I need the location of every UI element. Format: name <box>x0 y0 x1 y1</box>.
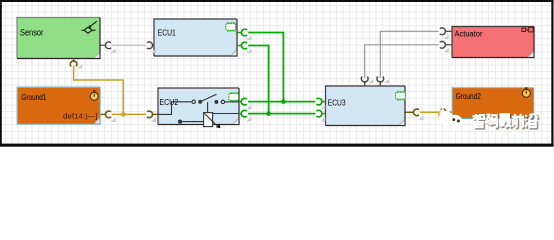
block Actuator <box>452 27 534 58</box>
svg-text:Ground2: Ground2 <box>456 91 481 101</box>
block Sensor <box>17 18 100 59</box>
svg-text:Sensor: Sensor <box>20 27 44 37</box>
Ground2 input port <box>441 109 446 116</box>
Actuator input port 1 <box>446 30 452 32</box>
wire Actuator port1 to ECU3 top2 <box>380 31 438 78</box>
svg-text:def14:|---]: def14:|---] <box>63 113 98 120</box>
junction net2 <box>266 111 271 116</box>
ECU1 input port <box>147 42 153 49</box>
Sensor output port <box>105 42 111 49</box>
Ground1 clock icon <box>90 90 98 100</box>
svg-text:Actuator: Actuator <box>455 30 483 39</box>
wire ECU1 port1 down to net1 <box>248 33 283 102</box>
wire Sensor bottom to power net <box>74 66 124 115</box>
actuator icon <box>522 27 533 32</box>
svg-text:ECU3: ECU3 <box>328 97 346 107</box>
junction power net <box>121 112 126 117</box>
block ECU3 <box>326 86 406 126</box>
wire Actuator port2 to ECU3 top1 <box>365 45 439 78</box>
wire ECU1 port2 down to net2 <box>248 46 268 114</box>
ECU3 output port <box>414 109 419 116</box>
block ECU1 <box>154 19 237 56</box>
Sensor bottom port <box>73 59 75 63</box>
Actuator input port 2 <box>446 44 452 46</box>
ECU1 output port 1 <box>237 32 242 34</box>
ECU2 input port <box>147 111 152 118</box>
ECU3 top port 2 <box>379 81 381 86</box>
watermark logo <box>438 108 463 130</box>
wire net1 ECU2 to ECU3 <box>248 101 316 103</box>
block ECU2 <box>158 88 239 125</box>
svg-text:ECU1: ECU1 <box>158 28 176 38</box>
Ground1 output port <box>106 111 111 118</box>
block Ground2 <box>452 88 534 119</box>
ECU2 internal relay circuit <box>158 94 239 128</box>
ECU2 output port 1 <box>239 101 241 103</box>
ECU3 chip icon <box>396 91 406 101</box>
wire ECU3 to Ground2 <box>420 111 440 113</box>
Ground2 clock icon <box>522 87 530 97</box>
ECU3 input port 2 <box>322 113 326 115</box>
wire net2 ECU2 to ECU3 <box>248 113 316 115</box>
sensor icon <box>82 21 97 33</box>
wire Sensor to ECU1 <box>112 44 146 46</box>
wire Ground1 to ECU2 <box>112 113 146 115</box>
junction net1 <box>281 99 286 104</box>
ECU3 top port 1 <box>364 81 366 86</box>
ECU1 output port 2 <box>237 45 242 47</box>
ECU1 chip icon <box>226 22 236 32</box>
ECU2 output port 2 <box>239 113 241 115</box>
watermark text 智驾最前沿 <box>474 115 539 128</box>
ECU3 input port 1 <box>322 101 326 103</box>
block Ground1 <box>17 87 100 124</box>
ECU2 chip icon <box>229 92 239 102</box>
svg-text:Ground1: Ground1 <box>21 92 46 102</box>
